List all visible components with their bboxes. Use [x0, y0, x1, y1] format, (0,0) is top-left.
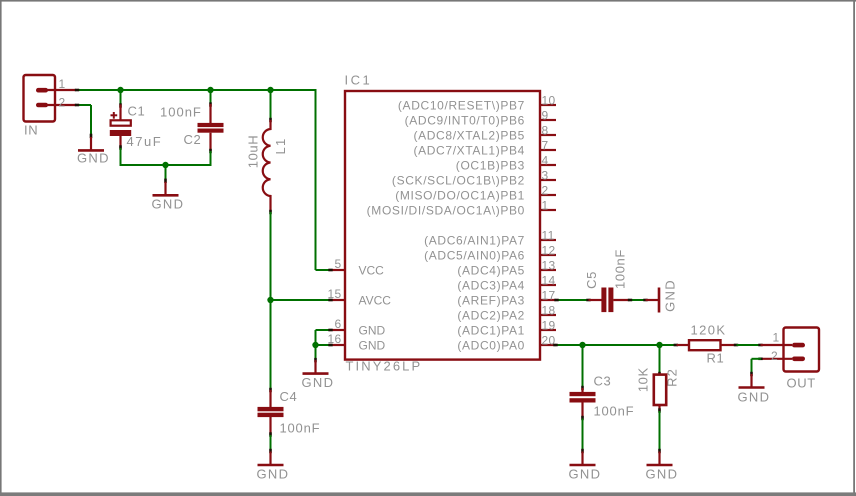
svg-text:L1: L1 — [273, 138, 288, 155]
svg-text:(MOSI/DI/SDA/OC1A\)PB0: (MOSI/DI/SDA/OC1A\)PB0 — [367, 203, 525, 217]
IC1 pin 15 stub — [329, 299, 345, 301]
junction blob GND8 wire — [269, 449, 272, 453]
IC1 pin 7 stub — [540, 149, 556, 151]
svg-text:2: 2 — [771, 349, 778, 363]
svg-text:GND: GND — [646, 466, 679, 481]
capacitor C3 pin bottom — [581, 403, 583, 419]
resistor R2 body — [654, 375, 666, 405]
svg-text:GND: GND — [152, 196, 185, 211]
junction blob R1 right — [734, 344, 738, 347]
svg-text:1: 1 — [59, 77, 66, 91]
junction blob C4 bottom — [269, 432, 272, 436]
IC1 pin 2 stub — [540, 194, 556, 196]
svg-text:GND: GND — [359, 338, 386, 352]
IC1 pin 6 stub — [329, 329, 345, 331]
svg-text:GND: GND — [302, 375, 335, 390]
capacitor C1 pin bottom — [119, 136, 121, 148]
ground GND7 (OUT) — [750, 374, 752, 388]
svg-text:4: 4 — [542, 153, 549, 167]
connector IN pin 2 line — [46, 104, 76, 106]
svg-text:C5: C5 — [584, 271, 599, 289]
wire C2 top — [210, 90, 212, 104]
node C1 junction dot — [117, 87, 123, 93]
node GND16 junction dot — [312, 342, 318, 348]
node AVCC junction dot — [267, 297, 273, 303]
svg-text:1: 1 — [773, 331, 780, 345]
node L1 junction dot — [267, 87, 273, 93]
wire into VCC pin — [316, 269, 332, 271]
svg-text:18: 18 — [542, 303, 556, 317]
capacitor C1 plus sign — [111, 114, 118, 116]
ground GND6 (R2) — [658, 452, 660, 466]
svg-text:100nF: 100nF — [613, 249, 628, 289]
svg-text:GND: GND — [662, 279, 677, 312]
ground GND4 (C5) rotated — [646, 299, 660, 301]
ground GND3 (IC) — [314, 360, 316, 374]
IC1 pin 3 stub — [540, 179, 556, 181]
node ground link junction dot — [162, 162, 168, 168]
IC1 pin 5 stub — [329, 269, 345, 271]
svg-text:1: 1 — [542, 198, 549, 212]
IC1 pin 17 stub — [540, 299, 556, 301]
junction blob C1 bottom — [119, 145, 122, 149]
wire C3 to GND5 — [582, 419, 584, 452]
capacitor C5 pin right — [613, 299, 629, 301]
resistor R1 pin left — [677, 344, 690, 346]
junction blob C4 top — [269, 388, 272, 392]
junction blob pin 5 — [328, 269, 332, 272]
junction blob R2 bottom — [658, 408, 661, 412]
junction blob IN pin2 — [75, 104, 79, 107]
connector IN pad 1 — [36, 88, 48, 93]
capacitor C4 pin bottom — [269, 417, 271, 435]
junction blob pin 6 — [328, 329, 332, 332]
junction blob pin17 — [554, 299, 558, 302]
wire VCC rail — [76, 89, 317, 91]
connector OUT pad 2 — [792, 357, 805, 362]
svg-text:C4: C4 — [280, 389, 298, 404]
IC1 pin 11 stub — [540, 239, 556, 241]
junction blob GND4 wire — [643, 299, 647, 302]
svg-text:IN: IN — [24, 123, 38, 138]
connector OUT pad 1 — [792, 343, 805, 348]
wire C1-C2 ground link — [120, 164, 212, 166]
wire GND pin6 — [316, 329, 332, 331]
IC1 pin 13 stub — [540, 269, 556, 271]
wire to R2 — [659, 345, 661, 375]
capacitor C1 pin top — [119, 105, 121, 121]
wire R1 to OUT — [737, 344, 761, 346]
node R2 junction dot — [656, 342, 662, 348]
junction blob C1 top — [119, 103, 122, 107]
junction blob OUT pin1 — [758, 344, 762, 347]
capacitor C3 plate top — [570, 392, 596, 396]
wire GND pin16 — [316, 344, 332, 346]
wire L1 to C4 — [270, 212, 272, 390]
svg-text:2: 2 — [59, 95, 66, 109]
svg-text:3: 3 — [542, 168, 549, 182]
wire OUT pin2 — [752, 358, 762, 360]
wire AVCC — [271, 299, 332, 301]
wire R2 to GND6 — [659, 411, 661, 452]
IC1 pin 12 stub — [540, 254, 556, 256]
svg-text:(AREF)PA3: (AREF)PA3 — [457, 293, 525, 307]
capacitor C2 pin top — [209, 104, 211, 123]
IC1 pin 1 stub — [540, 209, 556, 211]
svg-text:TINY26LP: TINY26LP — [346, 359, 423, 374]
svg-text:9: 9 — [542, 108, 549, 122]
ground GND5 (C3) — [581, 452, 583, 466]
ground GND1 (IN) — [90, 137, 92, 151]
IC1 pin 20 stub — [540, 344, 556, 346]
svg-text:(ADC7/XTAL1)PB4: (ADC7/XTAL1)PB4 — [413, 143, 525, 157]
svg-text:2: 2 — [542, 183, 549, 197]
capacitor C4 pin top — [269, 390, 271, 407]
junction blob GND2 wire — [164, 179, 167, 183]
svg-text:R2: R2 — [664, 368, 679, 387]
svg-text:VCC: VCC — [359, 263, 385, 277]
capacitor C2 plate top — [198, 123, 224, 127]
svg-text:AVCC: AVCC — [359, 293, 392, 307]
IC1 pin 18 stub — [540, 314, 556, 316]
svg-text:(ADC10/RESET\)PB7: (ADC10/RESET\)PB7 — [398, 98, 525, 112]
IC1 pin 8 stub — [540, 134, 556, 136]
svg-text:R1: R1 — [707, 351, 725, 366]
capacitor C5 plate left — [601, 288, 606, 313]
svg-text:10uH: 10uH — [246, 135, 261, 168]
border frame — [0, 0, 856, 2]
capacitor C5 plate right — [608, 288, 613, 313]
svg-text:13: 13 — [542, 258, 556, 272]
svg-text:GND: GND — [738, 390, 771, 405]
svg-text:(MISO/DO/OC1A)PB1: (MISO/DO/OC1A)PB1 — [395, 188, 525, 202]
wire C4 to GND8 — [270, 435, 272, 452]
capacitor C4 plate top — [258, 407, 284, 411]
junction blob C3 top — [581, 386, 584, 390]
capacitor C5 pin left — [589, 299, 602, 301]
connector IN pad 2 — [36, 103, 48, 108]
svg-text:10: 10 — [542, 93, 556, 107]
svg-text:C1: C1 — [128, 104, 146, 119]
resistor R2 pin bottom — [658, 405, 660, 411]
ground GND8 (C4) — [269, 452, 271, 466]
junction blob IN pin1 — [75, 89, 79, 92]
wire IN pin2 — [76, 104, 91, 106]
wire down to GND2 — [165, 165, 167, 181]
junction blob C2 bottom — [209, 149, 212, 153]
svg-text:19: 19 — [542, 318, 556, 332]
wire PA0 net — [556, 344, 677, 346]
IC IC1 (TINY26LP) body — [345, 91, 540, 360]
junction blob L1 bottom — [269, 210, 272, 214]
svg-text:100nF: 100nF — [280, 421, 321, 436]
wire C1 top — [120, 90, 122, 105]
connector IN pin 1 line — [46, 89, 76, 91]
svg-text:100nF: 100nF — [160, 105, 202, 120]
capacitor C4 plate bottom — [258, 413, 284, 417]
svg-text:5: 5 — [335, 257, 342, 271]
svg-text:120K: 120K — [691, 323, 727, 338]
resistor R1 body — [689, 340, 721, 350]
wire C2 bottom — [210, 151, 212, 166]
wire to C3 — [582, 345, 584, 388]
junction blob R2 top — [658, 372, 661, 376]
junction blob C5 right — [628, 299, 632, 302]
junction blob GND1 wire — [90, 134, 93, 138]
svg-text:GND: GND — [359, 323, 386, 337]
svg-text:(ADC9/INT0/T0)PB6: (ADC9/INT0/T0)PB6 — [405, 113, 525, 127]
svg-text:10K: 10K — [636, 367, 651, 392]
wire AREF to C5 — [556, 299, 589, 301]
junction blob C5 left — [586, 299, 590, 302]
junction blob C2 top — [209, 102, 212, 106]
junction blob OUT pin2 — [758, 358, 762, 361]
svg-text:(ADC0)PA0: (ADC0)PA0 — [457, 338, 525, 352]
connector OUT body — [784, 328, 820, 372]
wire L1 top — [270, 90, 272, 120]
capacitor C2 plate bottom — [198, 129, 224, 133]
svg-text:GND: GND — [77, 150, 110, 165]
svg-text:(OC1B)PB3: (OC1B)PB3 — [456, 158, 525, 172]
capacitor C3 plate bottom — [570, 398, 596, 402]
svg-text:GND: GND — [569, 466, 602, 481]
connector OUT pin 2 line — [761, 358, 792, 360]
junction blob GND3 wire — [314, 358, 317, 362]
capacitor C2 pin bottom — [209, 133, 211, 151]
IC1 pin 10 stub — [540, 104, 556, 106]
node C2 junction dot — [207, 87, 213, 93]
svg-text:12: 12 — [542, 243, 556, 257]
ground GND2 (C1 C2) — [164, 182, 166, 196]
IC1 pin 9 stub — [540, 119, 556, 121]
capacitor C1 plate bottom — [110, 130, 131, 136]
svg-text:OUT: OUT — [787, 376, 816, 391]
svg-text:(ADC4)PA5: (ADC4)PA5 — [457, 263, 525, 277]
capacitor C1 plate top — [111, 120, 131, 125]
junction blob pin 15 — [328, 299, 332, 302]
resistor R1 pin right — [721, 344, 737, 346]
IC1 pin 16 stub — [329, 344, 345, 346]
svg-text:100nF: 100nF — [594, 403, 635, 418]
svg-text:(ADC5/AIN0)PA6: (ADC5/AIN0)PA6 — [424, 248, 525, 262]
svg-text:17: 17 — [542, 288, 556, 302]
svg-text:14: 14 — [542, 273, 556, 287]
svg-text:(SCK/SCL/OC1B\)PB2: (SCK/SCL/OC1B\)PB2 — [392, 173, 525, 187]
junction blob R1 left — [674, 344, 678, 347]
svg-text:(ADC6/AIN1)PA7: (ADC6/AIN1)PA7 — [424, 233, 525, 247]
svg-text:47uF: 47uF — [127, 134, 163, 149]
inductor L1 — [263, 120, 271, 212]
junction blob GND7 wire — [750, 372, 753, 376]
svg-text:C2: C2 — [184, 132, 202, 147]
svg-text:6: 6 — [335, 317, 342, 331]
connector IN body — [24, 75, 56, 122]
IC1 pin 4 stub — [540, 164, 556, 166]
IC1 pin 19 stub — [540, 329, 556, 331]
junction blob GND5 wire — [581, 449, 584, 453]
wire rail down to VCC pin — [315, 89, 317, 270]
wire down to GND3 — [315, 345, 317, 361]
svg-text:11: 11 — [542, 228, 555, 242]
wire OUT pin1 line — [761, 344, 793, 346]
IC1 pin 14 stub — [540, 284, 556, 286]
junction blob pin 16 — [328, 344, 332, 347]
svg-text:GND: GND — [257, 466, 290, 481]
junction blob C3 bottom — [581, 416, 584, 420]
junction blob GND6 wire — [658, 449, 661, 453]
svg-text:7: 7 — [542, 138, 549, 152]
junction blob pin20 — [553, 344, 557, 347]
svg-text:8: 8 — [542, 123, 549, 137]
svg-text:C3: C3 — [594, 374, 612, 389]
svg-text:(ADC3)PA4: (ADC3)PA4 — [457, 278, 525, 292]
svg-text:(ADC8/XTAL2)PB5: (ADC8/XTAL2)PB5 — [413, 128, 525, 142]
wire C1 bottom — [120, 148, 122, 166]
svg-text:(ADC2)PA2: (ADC2)PA2 — [457, 308, 525, 322]
wire C5 to GND4 — [630, 299, 646, 301]
junction blob L1 top — [269, 118, 272, 122]
node C3 junction dot — [579, 342, 585, 348]
capacitor C3 pin top — [581, 388, 583, 392]
svg-text:(ADC1)PA1: (ADC1)PA1 — [457, 323, 525, 337]
svg-text:IC1: IC1 — [345, 73, 373, 88]
